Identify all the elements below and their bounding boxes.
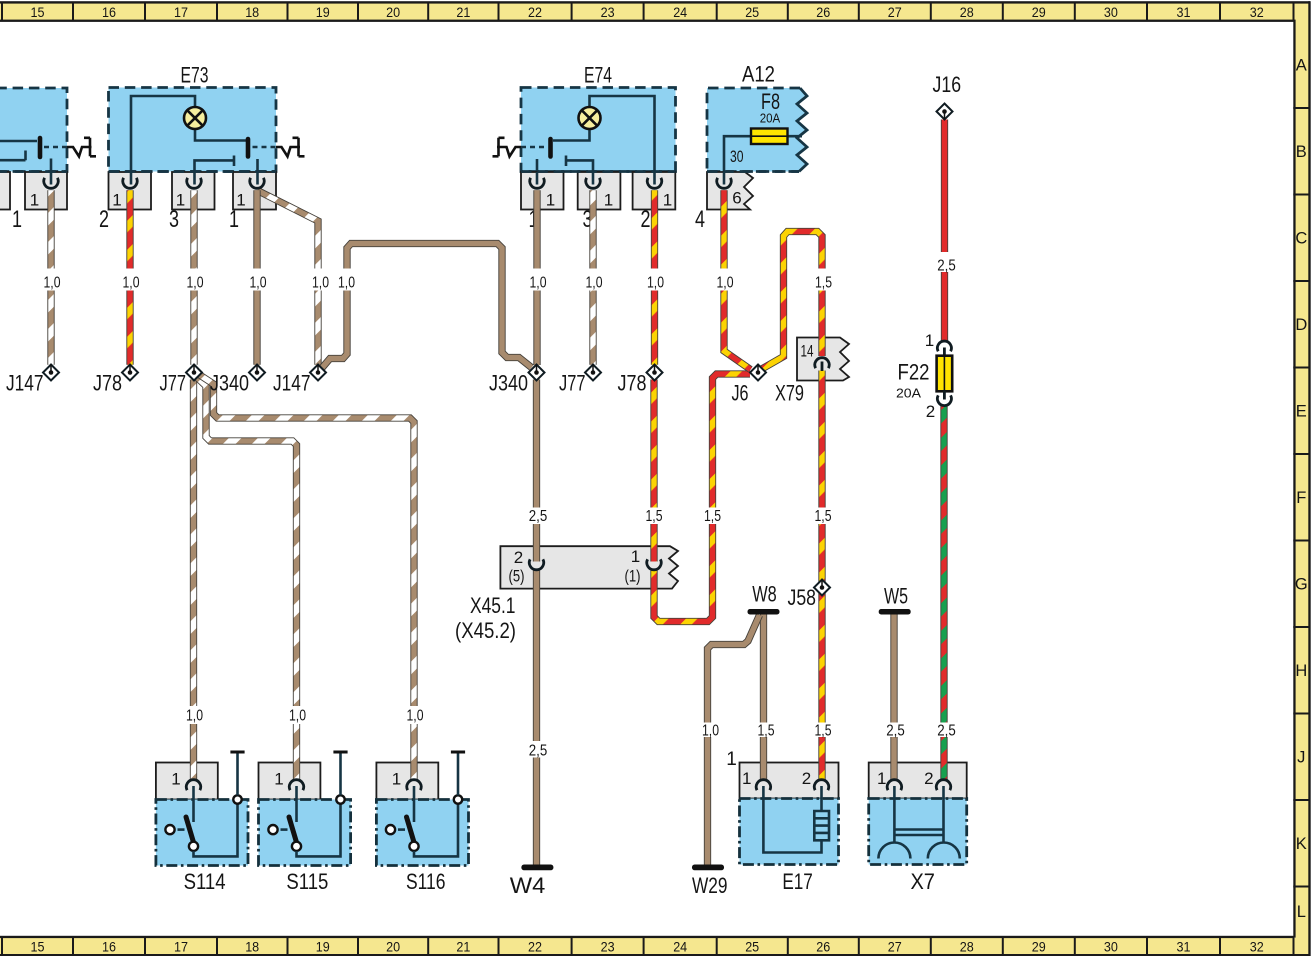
switch to pin 1 stub (left component): [50, 159, 53, 185]
svg-text:X7: X7: [910, 869, 935, 894]
E17 internal wiring: [763, 786, 821, 853]
S116 lever pivot circle: [409, 842, 418, 851]
svg-text:3: 3: [169, 206, 179, 233]
pin socket arc S114: [186, 780, 200, 790]
S114 fixed contact circle: [165, 825, 174, 834]
A12 pin box with torn edge: [707, 172, 753, 210]
pin box (cut, far left): [0, 172, 10, 210]
svg-text:32: 32: [1250, 939, 1264, 954]
svg-text:1,0: 1,0: [407, 708, 424, 725]
heated element E17: [726, 749, 838, 865]
svg-text:E: E: [1296, 403, 1307, 421]
pulse waveform symbol (left component): [67, 138, 96, 157]
wire W8 to E17 pin1 (brown): [760, 614, 767, 780]
S116 blue body: [376, 800, 468, 866]
E73 blue body: [109, 88, 277, 172]
blue body of left component: [0, 88, 67, 172]
svg-text:2: 2: [641, 206, 651, 233]
wire E74 pin3 to J77 right (brown-white): [589, 190, 596, 364]
svg-text:1,5: 1,5: [815, 275, 832, 292]
E74 pulse waveform symbol: [493, 138, 522, 157]
E74 pin3 contact line: [566, 156, 593, 185]
connector X79 gray box with torn edge: [797, 338, 849, 381]
svg-text:1,5: 1,5: [704, 508, 721, 525]
S115 line to T-bar: [339, 753, 342, 795]
X7 internal verticals: [894, 786, 943, 843]
S114 switch lever: [186, 817, 194, 844]
svg-text:J147: J147: [273, 371, 311, 396]
E73 switch bar: [246, 139, 251, 157]
svg-text:1: 1: [925, 331, 934, 350]
E73 wire lamp to switch: [195, 129, 246, 141]
svg-text:1: 1: [30, 191, 39, 210]
svg-text:(1): (1): [625, 567, 641, 586]
svg-text:1: 1: [663, 191, 672, 210]
pin socket arc X7 pin1: [887, 780, 901, 790]
X7 left socket arch: [878, 843, 910, 859]
S114 lever pivot circle: [189, 842, 198, 851]
svg-text:J16: J16: [933, 72, 962, 97]
pin socket arc left component pin1: [44, 178, 58, 188]
svg-text:W5: W5: [884, 584, 908, 609]
internal wire to switch (left component): [0, 140, 37, 143]
E74 switch bar: [548, 139, 553, 157]
svg-text:E73: E73: [181, 63, 209, 88]
svg-text:D: D: [1295, 316, 1307, 334]
node J340 left: [249, 365, 265, 381]
svg-text:25: 25: [745, 939, 759, 954]
S115 fixed contact circle: [268, 825, 277, 834]
S116 common stub: [413, 786, 416, 822]
pin socket arc X7 pin2: [936, 780, 950, 790]
svg-text:C: C: [1295, 230, 1307, 248]
node J58: [814, 580, 830, 596]
redraw dashed bottom borders over pin boxes: [0, 170, 67, 173]
svg-text:31: 31: [1177, 5, 1191, 20]
S115 common stub: [295, 786, 298, 822]
pin socket arc E73 pin1: [250, 178, 264, 188]
bottom ruler band: [0, 936, 1310, 956]
svg-text:14: 14: [801, 342, 814, 361]
pin socket arc E17 pin2: [814, 780, 828, 790]
pin socket arc E74 pin2: [647, 178, 661, 188]
pin socket arc E74 pin3: [586, 178, 600, 188]
svg-text:G: G: [1295, 576, 1308, 594]
node J78 junction: [647, 365, 663, 381]
svg-text:15: 15: [31, 939, 45, 954]
svg-text:1,0: 1,0: [123, 275, 140, 292]
svg-text:24: 24: [673, 939, 687, 954]
wire X79 through J58 to E17 pin2 (red-yellow): [818, 371, 825, 780]
ruler cell dividers bottom: [2, 938, 1294, 955]
ruler numbers 15-32 bottom: [31, 939, 1264, 954]
svg-text:1,0: 1,0: [530, 275, 547, 292]
svg-text:2,5: 2,5: [886, 723, 905, 740]
svg-text:2: 2: [926, 402, 935, 421]
svg-text:1,0: 1,0: [647, 275, 664, 292]
fuse F22 with pin arcs: [937, 341, 953, 406]
E73 pin3 contact line: [195, 156, 235, 185]
svg-text:1,0: 1,0: [338, 275, 355, 292]
svg-text:1: 1: [877, 769, 886, 788]
svg-text:30: 30: [730, 147, 744, 166]
top ruler band: [0, 1, 1310, 22]
S115 T-bar: [333, 751, 347, 754]
ruler cell dividers top: [2, 4, 1294, 21]
wire J77 branch to S116 (brown-white): [198, 374, 415, 780]
svg-text:17: 17: [174, 5, 188, 20]
svg-text:1,5: 1,5: [646, 508, 663, 525]
svg-text:J: J: [1297, 749, 1305, 767]
wire J77 to S114 (brown-white): [190, 380, 197, 780]
pin box 1 (left component): [25, 172, 67, 210]
S114 blue body: [156, 800, 248, 866]
svg-text:B: B: [1296, 143, 1307, 161]
svg-text:1,5: 1,5: [758, 723, 775, 740]
svg-text:1: 1: [274, 770, 283, 789]
pin socket arc X45.1 pin2: [529, 559, 543, 569]
svg-text:1: 1: [229, 206, 239, 233]
svg-text:1,0: 1,0: [717, 275, 734, 292]
E73 pin box c: [233, 172, 276, 210]
svg-text:20A: 20A: [896, 387, 922, 401]
svg-text:2: 2: [99, 206, 109, 233]
E74 wire lamp to switch: [553, 129, 590, 141]
wire E73 pin1 to J147 right (brown-white): [257, 190, 318, 364]
svg-text:1: 1: [171, 770, 180, 789]
svg-text:1: 1: [12, 206, 22, 233]
svg-text:21: 21: [456, 5, 470, 20]
svg-text:18: 18: [245, 5, 259, 20]
X7 pin box: [869, 763, 967, 799]
pin socket arc X45.1 pin1: [647, 559, 661, 569]
wire J6 up and over to X79 pin14 (red-yellow): [759, 232, 822, 371]
right letter column: [1293, 1, 1310, 956]
node J340 junction: [529, 365, 545, 381]
svg-text:K: K: [1296, 835, 1307, 853]
svg-text:26: 26: [816, 5, 830, 20]
svg-text:1,5: 1,5: [815, 723, 832, 740]
svg-text:1: 1: [546, 191, 555, 210]
S115 terminal circle on border: [336, 795, 344, 803]
inline connector strip X45.1: [500, 546, 678, 588]
svg-text:W4: W4: [510, 873, 546, 898]
X7 right socket arch: [928, 843, 960, 859]
S116 wire pivot to top terminal: [414, 803, 458, 856]
svg-text:J340: J340: [210, 371, 249, 396]
lamp unit E73: [99, 63, 305, 234]
E17 blue body: [740, 799, 839, 865]
S116 terminal circle on border: [454, 795, 462, 803]
svg-text:16: 16: [102, 5, 116, 20]
A12 internal wire pin 4 to fuse: [724, 136, 802, 184]
svg-text:2: 2: [514, 548, 523, 567]
pin socket arc E74 pin1: [530, 178, 544, 188]
svg-text:1,5: 1,5: [815, 508, 832, 525]
svg-text:22: 22: [528, 939, 542, 954]
svg-text:(X45.2): (X45.2): [455, 618, 516, 643]
svg-text:28: 28: [960, 5, 974, 20]
svg-text:S115: S115: [286, 869, 328, 894]
wire link J147 to J340 junction (brown): [322, 244, 532, 369]
pin socket arc E73 pin3: [187, 178, 201, 188]
switch S116: [376, 752, 468, 866]
E73 pin box b: [172, 172, 215, 210]
E17 pin box: [740, 763, 839, 799]
redraw pin stubs into cups over gray boxes: [51, 172, 724, 185]
cigarette lighter X7: [869, 763, 967, 865]
ground point W29: [692, 865, 724, 871]
E74 wire lamp to pin 2: [590, 96, 655, 185]
S115 wire pivot to top terminal: [297, 803, 341, 856]
wire left component pin1 to J147 (brown-white): [47, 190, 54, 364]
svg-text:J340: J340: [489, 371, 528, 396]
svg-text:J147: J147: [6, 371, 44, 396]
svg-text:6: 6: [732, 189, 741, 208]
wire E73 pin2 to J78 (red-yellow): [126, 190, 133, 364]
svg-text:24: 24: [673, 5, 687, 20]
svg-text:32: 32: [1250, 5, 1264, 20]
svg-text:2,5: 2,5: [937, 258, 956, 275]
svg-text:W29: W29: [692, 873, 728, 898]
svg-text:20: 20: [386, 5, 400, 20]
svg-text:H: H: [1295, 662, 1307, 680]
E73 switch to pin1 stub: [256, 159, 259, 185]
svg-text:L: L: [1297, 903, 1306, 921]
E74 blue body: [521, 88, 676, 172]
A12 blue body with torn right edge: [707, 88, 807, 172]
wire A12 pin4 to J6 (red-yellow): [724, 190, 751, 369]
S114 wire pivot to top terminal: [194, 803, 238, 856]
X7 blue body: [869, 799, 967, 865]
E17 heating element symbol: [814, 811, 829, 840]
svg-text:1: 1: [631, 547, 640, 566]
S114 common stub: [192, 786, 195, 822]
svg-text:19: 19: [316, 5, 330, 20]
E74 dashed link to pulse symbol: [521, 146, 546, 149]
svg-text:F8: F8: [761, 89, 780, 114]
E73 pulse waveform symbol: [276, 138, 305, 157]
svg-text:17: 17: [174, 939, 188, 954]
S115 contact dash: [281, 828, 288, 831]
svg-text:J78: J78: [93, 371, 122, 396]
svg-text:1,0: 1,0: [289, 708, 306, 725]
E73 wire lamp to pin 2: [131, 96, 195, 185]
lamp unit E74: [493, 63, 676, 234]
S116 contact dash: [398, 828, 405, 831]
svg-text:1: 1: [604, 191, 613, 210]
svg-text:29: 29: [1032, 5, 1046, 20]
svg-text:1: 1: [742, 769, 751, 788]
S114 line to T-bar: [236, 753, 239, 795]
S116 pin box: [376, 763, 438, 800]
svg-text:19: 19: [316, 939, 330, 954]
svg-text:20A: 20A: [760, 112, 781, 126]
svg-text:S116: S116: [406, 869, 446, 894]
svg-text:22: 22: [528, 5, 542, 20]
E74 pin box b: [578, 172, 621, 210]
E74 lamp symbol: [579, 107, 601, 129]
svg-text:2,5: 2,5: [529, 508, 548, 525]
ground point W8: [748, 609, 780, 615]
svg-text:27: 27: [888, 5, 902, 20]
svg-text:27: 27: [888, 939, 902, 954]
svg-text:1: 1: [726, 749, 737, 770]
svg-text:J6: J6: [732, 381, 749, 406]
E74 pin box a: [521, 172, 564, 210]
S116 fixed contact circle: [386, 825, 395, 834]
svg-text:26: 26: [816, 939, 830, 954]
node J147 junction: [310, 365, 326, 381]
S115 lever pivot circle: [292, 842, 301, 851]
E73 pin box a: [109, 172, 152, 210]
node J78 left: [122, 365, 138, 381]
svg-text:1,0: 1,0: [586, 275, 603, 292]
svg-text:A: A: [1296, 57, 1307, 75]
svg-text:2,5: 2,5: [529, 743, 548, 760]
dashed link to pulse symbol (left component): [44, 146, 67, 149]
A12 fuse F8 symbol: [751, 129, 788, 145]
svg-text:2: 2: [802, 769, 811, 788]
svg-text:F: F: [1296, 489, 1306, 507]
E73 lamp symbol: [184, 107, 206, 129]
svg-text:J58: J58: [788, 585, 817, 610]
wire E73 pin3 to J77 (brown-white): [190, 190, 197, 364]
svg-text:S114: S114: [184, 869, 226, 894]
S114 T-bar: [230, 751, 244, 754]
E74 pin box c: [633, 172, 676, 210]
svg-text:15: 15: [31, 5, 45, 20]
pin socket arc X79 pin14 with stub: [815, 358, 829, 371]
wire W5 to X7 pin1 (brown): [890, 614, 897, 780]
row letters A-L: [1295, 57, 1308, 922]
wire E73 pin1 to J340 (brown): [253, 190, 260, 364]
wire J77 branch to S115 (brown-white): [196, 377, 297, 780]
S114 pin box: [156, 763, 218, 800]
svg-text:1,0: 1,0: [44, 275, 61, 292]
pin socket arc S115: [289, 780, 303, 790]
svg-text:W8: W8: [752, 582, 777, 607]
ground point W5: [879, 609, 911, 615]
svg-text:30: 30: [1104, 939, 1118, 954]
component E (left, cut off) lamp switch unit: [0, 88, 96, 233]
svg-text:28: 28: [960, 939, 974, 954]
node J16: [937, 104, 953, 120]
node J147 left: [43, 365, 59, 381]
svg-text:2: 2: [924, 769, 933, 788]
pin socket arc E17 pin1: [756, 780, 770, 790]
wire J16 to F22 pin1 (red): [941, 120, 948, 342]
svg-text:E17: E17: [782, 869, 813, 894]
node J77 junction: [186, 365, 202, 381]
ground point W4: [521, 865, 553, 871]
svg-text:31: 31: [1177, 939, 1191, 954]
pin socket arc E73 pin2: [123, 178, 137, 188]
svg-text:2,5: 2,5: [937, 723, 956, 740]
svg-text:30: 30: [1104, 5, 1118, 20]
X7 element double line: [894, 830, 943, 836]
svg-text:X45.1: X45.1: [470, 593, 516, 618]
svg-text:J77: J77: [160, 371, 187, 396]
svg-text:25: 25: [745, 5, 759, 20]
node J77 right: [585, 365, 601, 381]
internal contact line with tick (left component): [0, 151, 26, 161]
svg-text:1,0: 1,0: [312, 275, 329, 292]
S114 terminal circle on border: [233, 795, 241, 803]
svg-text:23: 23: [601, 5, 615, 20]
fuse box unit A12: [695, 62, 807, 234]
wire E74 pin1 through J340 and X45.1 pin2 to W4 (brown): [533, 190, 541, 866]
svg-text:X79: X79: [775, 381, 804, 406]
pin socket arc S116: [407, 780, 421, 790]
switch bar (left component): [38, 138, 43, 157]
svg-text:1: 1: [392, 770, 401, 789]
pin socket arc A12 pin4: [717, 178, 731, 188]
E73 dashed link to pulse symbol: [253, 146, 277, 149]
svg-text:16: 16: [102, 939, 116, 954]
switch S114: [156, 752, 248, 866]
svg-text:E74: E74: [584, 63, 612, 88]
svg-text:1,0: 1,0: [250, 275, 267, 292]
S116 T-bar: [451, 751, 465, 754]
svg-text:J78: J78: [618, 371, 647, 396]
E74 switch to pin1 stub: [536, 159, 539, 185]
svg-text:20: 20: [386, 939, 400, 954]
svg-text:1,0: 1,0: [186, 708, 203, 725]
svg-text:J77: J77: [559, 371, 586, 396]
S115 blue body: [259, 800, 351, 866]
node J6 junction: [750, 365, 766, 381]
svg-text:(5): (5): [509, 567, 525, 586]
S115 switch lever: [289, 817, 297, 844]
S116 switch lever: [407, 817, 415, 844]
svg-text:21: 21: [456, 939, 470, 954]
wire W8 branch to W29 (brown): [708, 615, 760, 866]
svg-text:23: 23: [601, 939, 615, 954]
svg-text:A12: A12: [742, 62, 775, 87]
svg-text:1,0: 1,0: [702, 723, 719, 740]
row letter ticks: [1293, 108, 1309, 887]
S116 line to T-bar: [457, 753, 460, 795]
svg-text:18: 18: [245, 939, 259, 954]
switch S115: [259, 752, 351, 866]
ruler numbers 15-32 top: [31, 5, 1264, 20]
S115 pin box: [259, 763, 321, 800]
svg-text:1,0: 1,0: [187, 275, 204, 292]
wire F22 pin2 to X7 pin2 (red-green): [940, 405, 947, 780]
svg-text:29: 29: [1032, 939, 1046, 954]
wire E74 pin2 through J78 and X45.1 pin1 up to J6 (red-yellow): [654, 190, 750, 621]
svg-text:1: 1: [112, 191, 121, 210]
S114 contact dash: [178, 828, 185, 831]
svg-text:4: 4: [695, 206, 705, 233]
svg-text:F22: F22: [898, 360, 930, 385]
